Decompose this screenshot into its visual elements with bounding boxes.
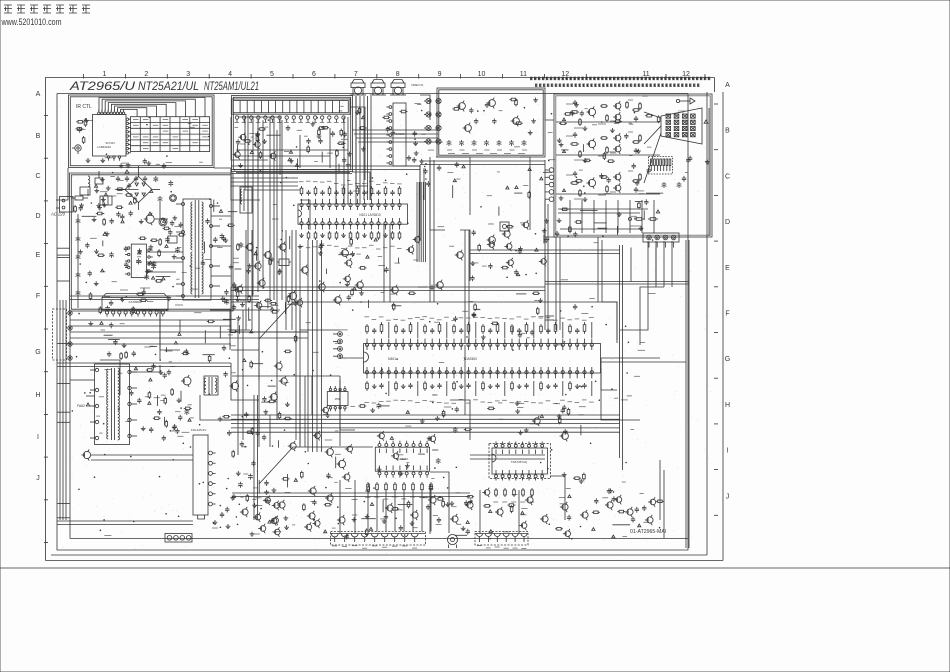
frame outer border: [46, 78, 715, 561]
audio parts: [415, 141, 417, 143]
svg-text:E: E: [36, 252, 41, 259]
wire: [300, 310, 340, 330]
wire: [304, 376, 306, 447]
FBT primary: [107, 369, 109, 405]
wire: [232, 496, 470, 498]
wire: [479, 490, 481, 534]
bottom transistors row: [242, 509, 248, 515]
focus pack lines: [86, 379, 95, 381]
IR block nested wires to table: [99, 98, 205, 117]
wire: [601, 368, 640, 420]
bridge rectifier VD901-904: [125, 177, 152, 203]
extra parts B+ area: [144, 346, 150, 348]
N101 top passives: [301, 186, 303, 188]
wire: [231, 169, 260, 200]
wire: [602, 302, 617, 340]
transistor V408: [310, 488, 316, 494]
inset extra parts: [646, 192, 663, 194]
svg-text:www.5201010.com: www.5201010.com: [1, 17, 62, 27]
wire: [300, 200, 310, 230]
AV board parts: [493, 118, 495, 120]
svg-text:8: 8: [396, 71, 400, 78]
power cap chain wire: [77, 214, 79, 308]
wire: [420, 164, 545, 166]
CRT socket terminal strip: [649, 157, 673, 175]
wire: [433, 160, 435, 302]
wire: [601, 361, 686, 363]
service note text line1: [530, 77, 533, 80]
wire: [430, 157, 445, 230]
wire web verticals left: [59, 300, 61, 520]
grid ticks top: [83, 74, 85, 79]
column wires x230-300: [281, 120, 283, 300]
key matrix table: [130, 117, 209, 152]
AV board outline: [437, 88, 545, 157]
service note text line2: [535, 84, 538, 87]
transistor V404: [290, 443, 296, 449]
extra parts tuner area: [244, 140, 246, 142]
connector XS101 pins: [235, 116, 238, 119]
wire: [429, 484, 431, 534]
IC N001 remote microcontroller: [93, 115, 127, 157]
wire: [200, 395, 231, 420]
wire: [335, 156, 337, 204]
AV jacks connector XS601: [426, 98, 431, 103]
wire: [231, 290, 545, 292]
scan noise specks: [176, 350, 179, 353]
svg-text:J: J: [36, 475, 40, 482]
power big filter caps: [159, 218, 167, 226]
power connector XP801: [53, 309, 67, 360]
wire: [430, 472, 449, 533]
T901 frame: [183, 199, 211, 300]
wire: [231, 331, 308, 333]
svg-text:I: I: [727, 448, 729, 455]
wire: [220, 420, 259, 447]
svg-text:B: B: [725, 128, 730, 135]
wire: [601, 358, 617, 390]
svg-text:J: J: [726, 493, 730, 500]
wire: [601, 357, 660, 359]
transistor V403: [271, 394, 278, 401]
CRT warning triangle: [704, 120, 708, 123]
N101 bottom passives: [301, 233, 303, 235]
ground: [87, 158, 89, 160]
IC N201 opamp: [327, 392, 348, 406]
wire: [340, 380, 355, 430]
wire: [91, 459, 193, 461]
wire: [359, 96, 361, 204]
wire: [550, 476, 565, 520]
speaker edge connector XS B2: [475, 532, 528, 546]
wire: [57, 362, 231, 364]
wire: [70, 295, 259, 297]
wire: [269, 415, 271, 447]
heatsink dashes: [489, 444, 551, 479]
FBT top components: [148, 391, 150, 393]
wire: [655, 241, 657, 287]
pin ticks N601B: [495, 450, 497, 455]
FBT core: [111, 368, 113, 440]
svg-text:H: H: [725, 402, 730, 409]
T901 primary winding lower: [191, 252, 193, 294]
fuse F901: [75, 196, 83, 200]
vertical bus center: [307, 240, 309, 452]
wire: [214, 168, 231, 190]
frame bottom border lines: [46, 560, 724, 562]
wire: [647, 241, 649, 287]
svg-text:D: D: [35, 213, 40, 220]
IR control block outline: [69, 95, 215, 168]
mains filter parts: [81, 203, 83, 205]
wire: [340, 357, 363, 359]
focus caps: [663, 182, 665, 184]
wire: [356, 96, 368, 186]
vertical wires right: [619, 245, 621, 458]
wire: [231, 296, 250, 330]
power extra parts 4: [125, 194, 127, 196]
center cluster parts: [415, 237, 421, 243]
line filter caps row: [117, 176, 119, 178]
IC N001 top pins: [98, 112, 100, 114]
AV board cap row: [448, 140, 450, 142]
CRT socket pin grid: [666, 114, 671, 118]
wire: [620, 287, 648, 330]
power extra parts 3: [103, 203, 105, 205]
wire: [420, 160, 545, 162]
wire: [57, 366, 231, 368]
wire: [343, 117, 345, 204]
yoke area parts: [150, 427, 152, 429]
resistor R005: [85, 118, 87, 120]
parts below connector: [235, 127, 239, 129]
IR receiver D001: [75, 145, 81, 151]
extra parts sync: [491, 322, 493, 324]
svg-text:E: E: [725, 265, 730, 272]
svg-text:4: 4: [228, 71, 232, 78]
power block outline: [70, 173, 234, 311]
wire: [520, 157, 530, 230]
RGB channel extra parts: [632, 109, 634, 111]
wire: [470, 253, 620, 255]
degauss coil L901: [88, 176, 90, 187]
wire: [460, 230, 470, 281]
IC N101 top pins: [300, 203, 303, 206]
IF can Z102: [500, 222, 509, 231]
wire: [464, 345, 466, 415]
transistor V402: [281, 378, 287, 384]
extra parts bottom strip 2: [303, 503, 305, 505]
wire: [350, 107, 365, 180]
transistor V109: [346, 260, 352, 266]
warning triangles: [125, 170, 129, 173]
resistor ladder below audio IC: [495, 488, 497, 490]
key matrix table text: [133, 119, 139, 121]
main board bottom border: [70, 538, 688, 540]
sub regulator IC N801: [102, 298, 168, 311]
svg-text:6: 6: [312, 71, 316, 78]
transistor V202: [504, 231, 510, 237]
wire: [231, 287, 260, 310]
IC N101 bottom pins: [300, 222, 303, 225]
svg-text:I: I: [37, 434, 39, 441]
wire: [470, 454, 545, 456]
wire: [70, 299, 259, 301]
upper tuner cluster 2: [284, 151, 289, 153]
XS101 pin labels: [235, 122, 240, 124]
filament circuit: [634, 218, 636, 220]
bus wires upper right: [545, 281, 689, 283]
wires inset to main: [545, 315, 554, 317]
bottom extra transistor cluster: [254, 533, 260, 535]
wire: [352, 172, 370, 200]
svg-text:N301: N301: [388, 357, 396, 361]
wire: [402, 166, 420, 240]
N301 top passives: [366, 324, 368, 326]
wire: [354, 480, 356, 534]
parts below N501: [214, 520, 216, 522]
tuner area parts: [356, 110, 358, 112]
T901 primary winding: [191, 202, 193, 250]
CRT socket funnel: [661, 108, 702, 144]
CRT board edge connector XS B1: [331, 532, 426, 546]
wire: [671, 241, 673, 287]
T901 taps: [182, 203, 185, 206]
IR block small parts: [81, 128, 86, 130]
T901 secondary winding: [202, 202, 204, 250]
CRT board inset frame: [554, 94, 712, 237]
svg-text:G: G: [725, 356, 730, 363]
IC N001 right pins: [126, 118, 128, 120]
svg-text:A: A: [725, 82, 730, 89]
IC N301 bottom pins: [365, 371, 368, 374]
connector XP301: [338, 332, 343, 337]
wire: [559, 237, 561, 330]
svg-text:IR CTL: IR CTL: [76, 104, 92, 110]
wires bottom right vertical: [659, 460, 661, 520]
svg-text:VIDEO IN: VIDEO IN: [411, 83, 423, 87]
svg-text:AC 220: AC 220: [50, 212, 66, 217]
grid ticks left: [44, 115, 48, 117]
extra parts power lower: [137, 256, 141, 258]
wire: [210, 310, 230, 350]
EHT wire: [130, 365, 161, 372]
svg-text:D: D: [725, 219, 730, 226]
filter can Z103: [391, 83, 405, 88]
FBT secondary lower: [118, 408, 120, 440]
svg-text:9: 9: [438, 71, 442, 78]
transistor V406: [338, 460, 345, 467]
svg-text:N101 LA76810: N101 LA76810: [359, 213, 380, 217]
extra parts inset interior: [595, 222, 607, 224]
audio power IC N601B: [492, 448, 547, 474]
wire runs top center: [352, 129, 438, 131]
transistor V409: [562, 433, 569, 440]
wire: [555, 237, 557, 330]
bottom center cluster parts: [347, 446, 353, 452]
long bus from connector down: [247, 114, 249, 298]
inset wire verticals: [569, 200, 571, 233]
extra labels everywhere: [378, 255, 383, 257]
bottom strip parts: [265, 498, 271, 504]
secondary rails: [70, 319, 231, 321]
svg-text:TDA7057AQ: TDA7057AQ: [511, 460, 528, 464]
wire: [429, 160, 431, 302]
block outline with chamfer upper: [259, 302, 617, 339]
power rail labels: [140, 287, 150, 289]
svg-text:FDL245-6V: FDL245-6V: [191, 428, 206, 432]
transistor V501: [83, 451, 90, 458]
wire: [464, 230, 466, 343]
wires to heater: [630, 248, 632, 282]
extra labels 2: [313, 351, 319, 353]
wire: [347, 117, 349, 204]
wire: [100, 360, 120, 395]
frame IC N501 body: [193, 435, 208, 515]
wire: [518, 490, 520, 534]
N501 pins: [209, 451, 213, 455]
svg-text:SC7343: SC7343: [105, 141, 115, 145]
svg-text:10: 10: [478, 71, 486, 78]
tuner block inner wires: [236, 149, 348, 151]
FBT extra turns box fill: [99, 396, 104, 398]
IC N301 body: [364, 344, 601, 374]
wire: [663, 241, 665, 287]
wire web left: [57, 382, 70, 384]
board connector XP501: [549, 168, 554, 173]
wire: [160, 310, 180, 350]
IC N301 top pins: [365, 343, 368, 346]
misc long wires: [231, 301, 259, 303]
wire: [269, 117, 271, 300]
svg-text:7: 7: [354, 71, 358, 78]
connector XS801 on border: [165, 534, 192, 543]
block outline with chamfer lower: [259, 447, 373, 484]
more inset channel wires: [556, 121, 660, 123]
wire: [616, 302, 618, 343]
svg-text:11: 11: [520, 71, 527, 78]
svg-text:3: 3: [186, 71, 190, 78]
wire: [389, 224, 391, 302]
sync cluster parts: [517, 273, 520, 276]
N101 right bus: [416, 182, 418, 262]
vertical drive transistor V502: [231, 382, 238, 389]
AC input plug X901: [60, 197, 74, 213]
svg-text:A: A: [36, 91, 41, 98]
wire runs mid: [231, 173, 352, 175]
svg-text:H: H: [35, 392, 40, 399]
wire: [245, 117, 300, 190]
transistor V410: [534, 418, 540, 424]
wires left of N501: [253, 395, 255, 520]
B+ filter parts below regulator: [185, 349, 187, 351]
wire: [60, 168, 68, 200]
frame inner drawing box: [57, 94, 688, 551]
svg-text:LC863232: LC863232: [97, 145, 111, 149]
svg-text:NT25AM1/UL21: NT25AM1/UL21: [204, 79, 259, 93]
IC N001 bottom pins: [107, 156, 109, 158]
transistor V407: [344, 474, 350, 480]
SMPS transformer T901 core: [194, 200, 196, 298]
wire: [273, 117, 275, 300]
CRT board inset inner frame: [556, 96, 710, 235]
extra parts bottom left-center: [287, 474, 289, 487]
bus from tuner cans down: [363, 96, 365, 200]
drive transformer T401: [204, 376, 218, 395]
transistor V106: [259, 280, 265, 286]
wire: [383, 224, 385, 302]
FBT secondary: [118, 368, 120, 410]
wire: [450, 400, 470, 440]
wire: [238, 117, 280, 175]
tuner block outline: [232, 96, 353, 172]
left mid cluster parts: [248, 268, 250, 270]
wire: [470, 249, 620, 251]
svg-text:C: C: [35, 173, 40, 180]
IF transformer Z103: [240, 187, 252, 213]
FBT primary lower: [107, 406, 109, 439]
wire: [299, 376, 301, 447]
pin number ticks inside N101: [301, 206, 303, 211]
wire: [232, 375, 340, 377]
wire: [236, 172, 350, 174]
svg-text:B: B: [36, 133, 41, 140]
AV board transistors: [459, 103, 466, 110]
switching regulator IC N901: [131, 244, 146, 278]
wire from V501: [91, 454, 193, 456]
svg-text:G: G: [35, 349, 40, 356]
svg-text:2: 2: [144, 71, 148, 78]
filter can Z101: [351, 83, 365, 88]
extra parts below AV: [515, 186, 518, 189]
extra parts mid-left: [235, 268, 242, 270]
horizontal bus center: [231, 414, 620, 416]
xtal X101: [279, 259, 289, 266]
wire: [231, 286, 545, 288]
horiz output transistor V432: [183, 377, 191, 385]
extra parts FBT right: [165, 420, 167, 422]
spark gaps: [687, 158, 689, 160]
wire: [545, 160, 556, 237]
inset channel tail wires: [644, 112, 661, 118]
T901 secondary winding lower: [202, 252, 204, 294]
heater connector XS503: [643, 233, 679, 242]
inset right vertical wire: [708, 108, 710, 236]
svg-text:AT2965/U: AT2965/U: [69, 79, 136, 93]
wire: [311, 376, 313, 415]
audio right cluster: [562, 408, 564, 410]
extra parts center above N301: [473, 312, 475, 314]
AV board bottom labels: [448, 153, 455, 155]
more horizontals upper mid: [231, 177, 298, 179]
wire: [420, 95, 430, 120]
IC N401 vertical drive: [375, 447, 429, 471]
FBT T402 frame: [95, 364, 130, 445]
svg-text:5: 5: [270, 71, 274, 78]
IC N101 body: [298, 204, 407, 224]
extra parts below N301: [498, 402, 502, 404]
pin ticks N401: [379, 449, 381, 454]
extra parts power upper: [90, 237, 97, 239]
wire: [470, 458, 545, 460]
transistor V108: [342, 250, 349, 257]
wire: [231, 117, 268, 160]
snubber parts: [178, 234, 180, 236]
posistor RT901: [95, 178, 103, 184]
svg-text:NT25A21/UL: NT25A21/UL: [138, 79, 199, 93]
svg-text:F: F: [36, 293, 40, 300]
power cap chain: [77, 218, 79, 220]
